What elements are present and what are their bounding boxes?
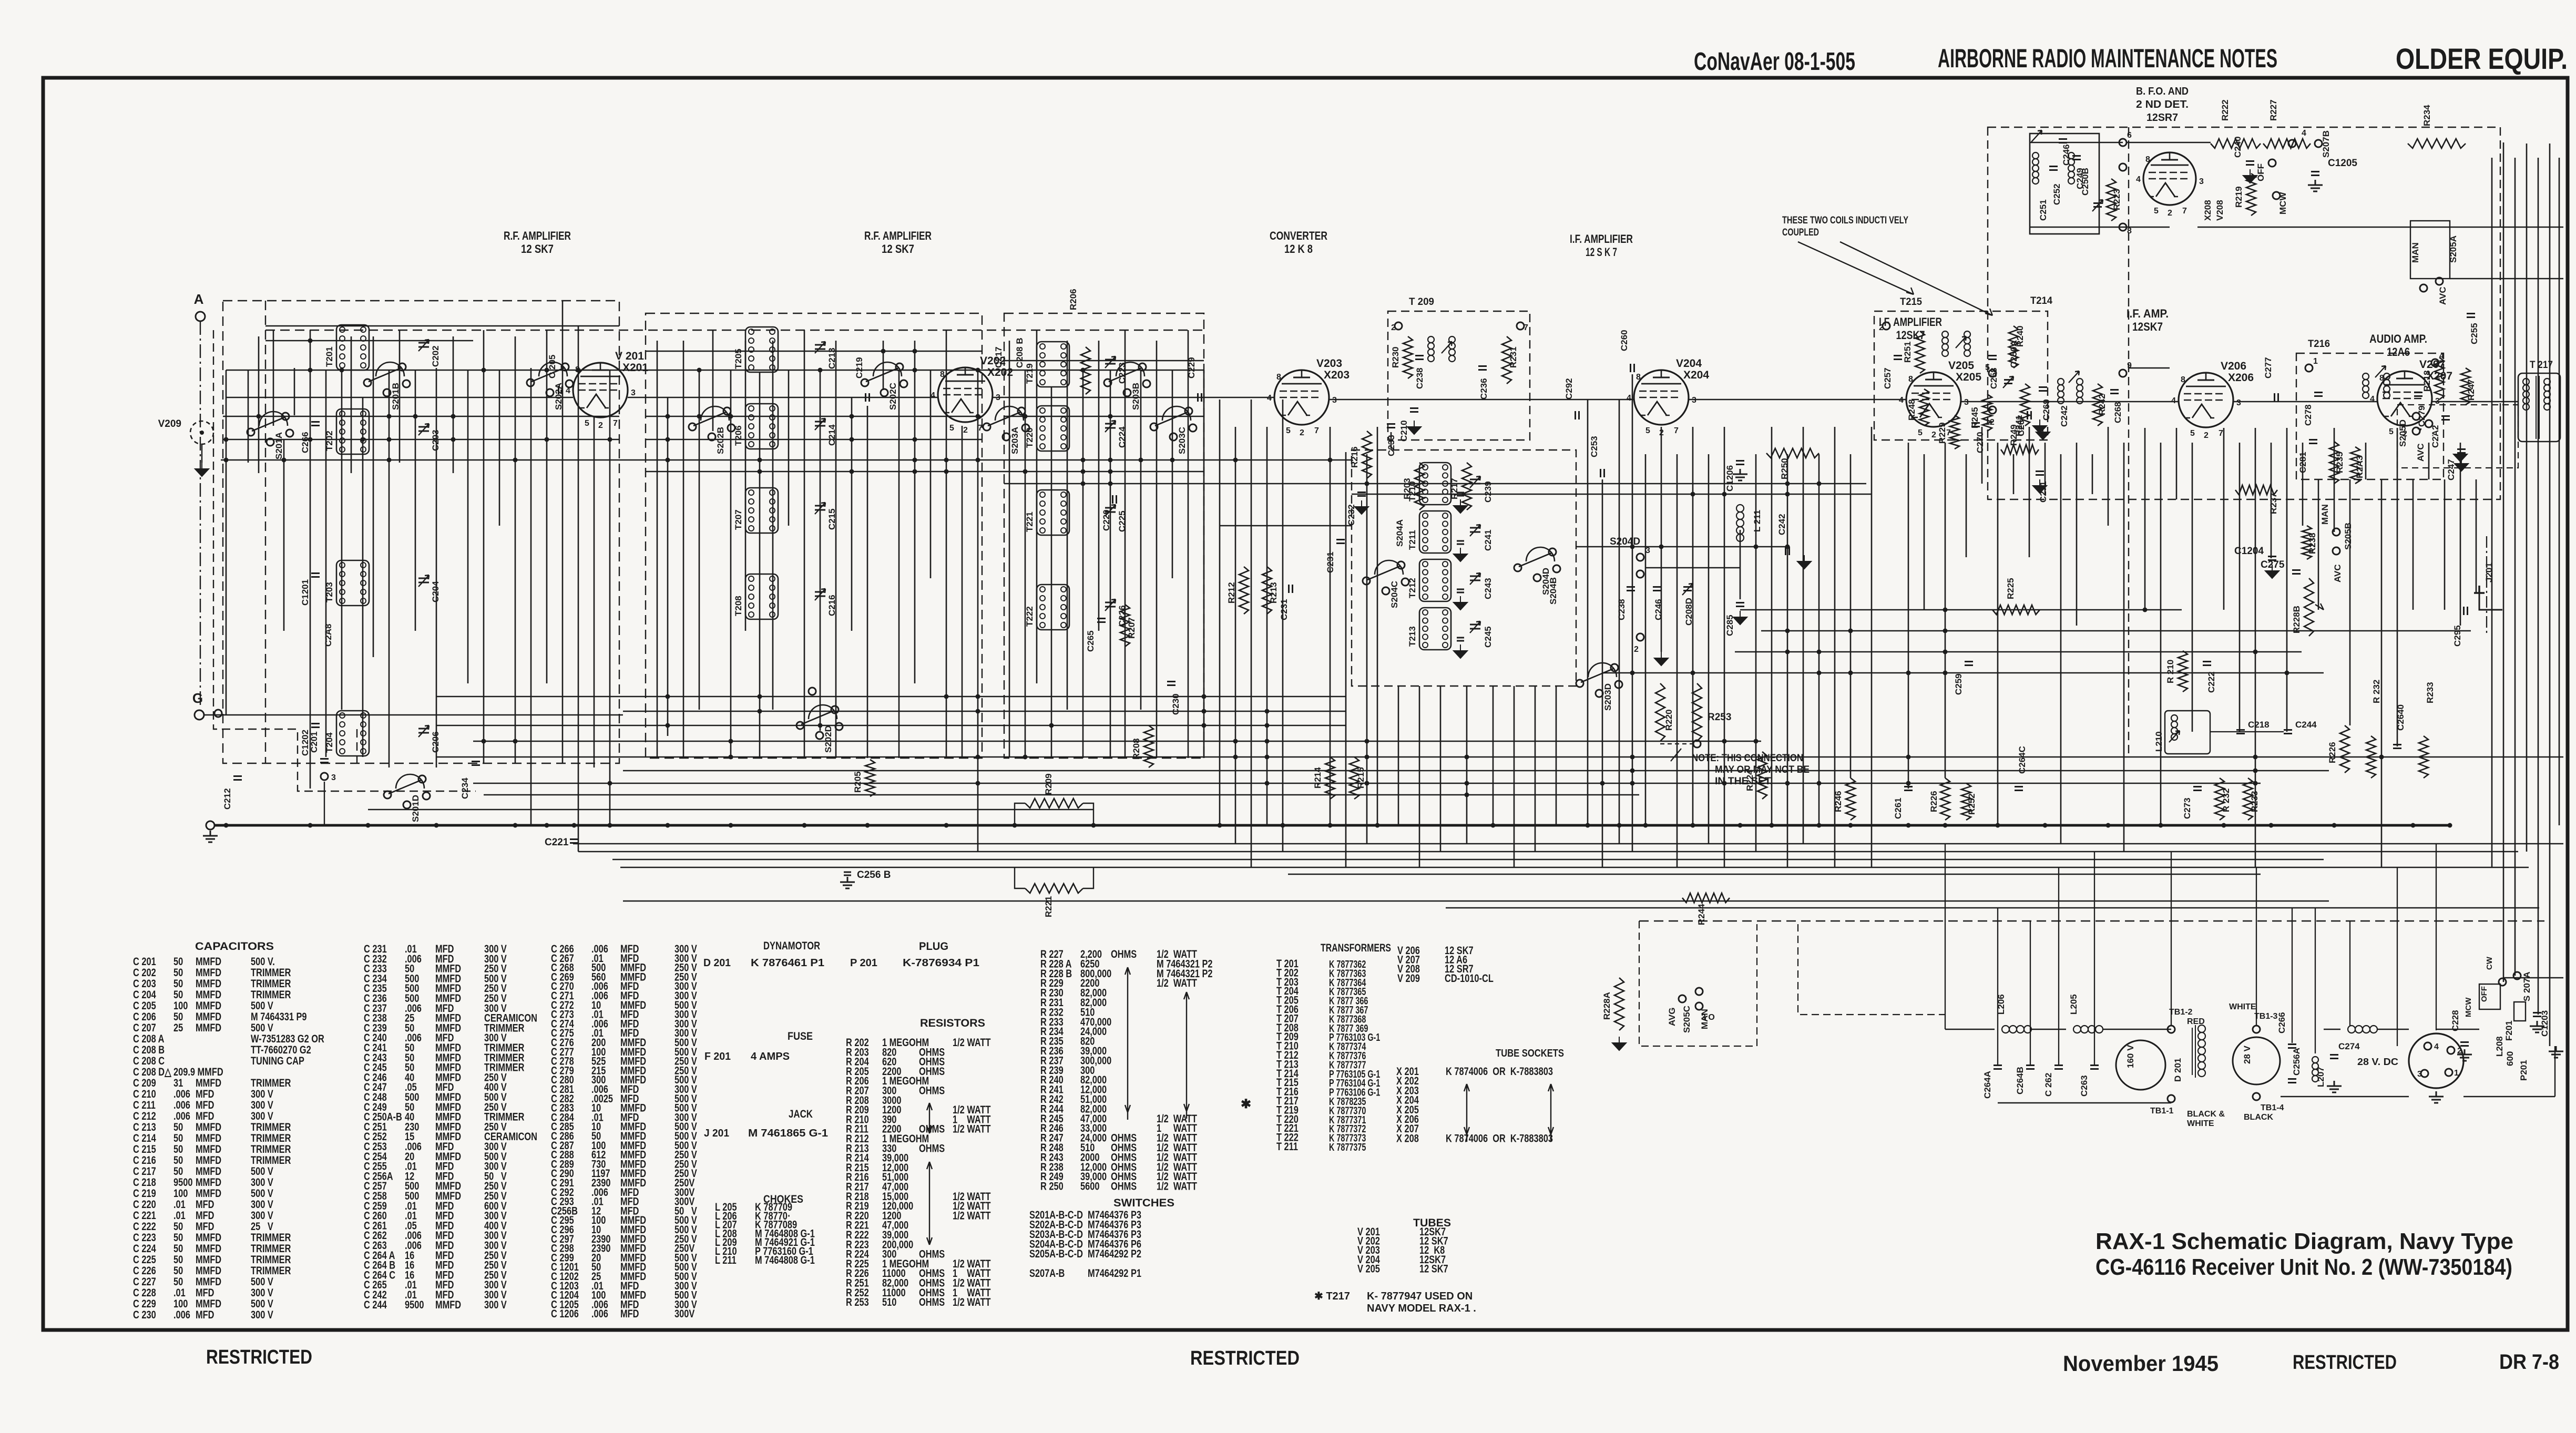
capacitor C28x T211 — [1457, 541, 1464, 544]
svg-text:C201: C201 — [309, 731, 319, 753]
svg-text:R209: R209 — [1044, 773, 1054, 795]
capacitor C250A — [2004, 380, 2012, 384]
wire vertical v8 — [341, 370, 343, 710]
wire plate to R222 — [2127, 142, 2211, 143]
capacitor C234 — [472, 762, 480, 765]
wire vertical v91 — [1740, 530, 1741, 599]
svg-text:TB1-3: TB1-3 — [2254, 1012, 2278, 1021]
svg-text:6: 6 — [2127, 131, 2132, 140]
svg-text:R247: R247 — [2466, 379, 2476, 401]
wire vertical v16 — [453, 336, 454, 473]
svg-text:T221: T221 — [1025, 511, 1035, 532]
T216 coil 2 — [2384, 373, 2390, 380]
wire vertical v115 — [2160, 443, 2162, 825]
svg-text:R226: R226 — [2327, 742, 2337, 763]
svg-text:12 SK7: 12 SK7 — [882, 242, 914, 255]
wire vertical v117 — [2192, 443, 2193, 732]
wire vertical v4 — [283, 439, 285, 631]
resistor R225 — [1992, 605, 2040, 615]
svg-text:BLACK: BLACK — [2244, 1113, 2273, 1122]
svg-text:7: 7 — [978, 424, 983, 433]
resistor R253 vertical — [1692, 683, 1702, 741]
wire vertical v39 — [835, 341, 837, 758]
wire vertical v123 — [2302, 443, 2304, 526]
svg-text:3: 3 — [1332, 396, 1337, 405]
svg-text:C242: C242 — [1777, 514, 1787, 535]
T217 secondary coil — [2544, 378, 2550, 385]
svg-text:TRANSFORMERS: TRANSFORMERS — [1321, 942, 1391, 954]
svg-text:R229: R229 — [1937, 422, 1947, 444]
wire vertical v27 — [657, 341, 658, 757]
capacitor C269 — [2039, 387, 2047, 391]
svg-text:8: 8 — [2127, 227, 2132, 236]
capacitor C1201 at T203 — [311, 574, 320, 577]
note arrow — [1671, 749, 1681, 761]
T209 primary coil — [1428, 336, 1434, 343]
svg-text:T201: T201 — [324, 346, 334, 367]
svg-text:C265: C265 — [1086, 630, 1096, 652]
coupling line stage 5 — [1689, 399, 1906, 401]
svg-text:X208: X208 — [2203, 200, 2213, 221]
capacitor C256B — [844, 872, 851, 875]
svg-text:R228B: R228B — [2292, 606, 2302, 633]
trimmer arrow BFO — [2031, 130, 2042, 142]
svg-text:S 207A: S 207A — [2522, 971, 2532, 1001]
wire vertical v14 — [415, 370, 416, 631]
svg-text:C253: C253 — [1589, 436, 1599, 457]
svg-text:R218: R218 — [2422, 370, 2432, 392]
svg-text:OLDER EQUIP.: OLDER EQUIP. — [2396, 42, 2568, 75]
tube socket arrows — [1464, 1084, 1469, 1142]
OFF contact — [2268, 159, 2276, 167]
resistor R246 — [1846, 778, 1855, 820]
wire vertical v101 — [1924, 454, 1925, 610]
svg-text:5: 5 — [2190, 429, 2195, 438]
shield box converter dashed — [1004, 313, 1204, 758]
wire vertical v70 — [1366, 454, 1368, 844]
svg-text:12SK712 SK712 K812SK712 SK7: 12SK712 SK712 K812SK712 SK7 — [1419, 1225, 1448, 1275]
transformer T220 — [1037, 406, 1069, 451]
svg-text:MFDMFDMMFDMMFDMMFDMMFDMFDMMFDM: MFDMFDMMFDMMFDMMFDMMFDMFDMMFDMMFDMFDMMFD… — [435, 943, 461, 1311]
svg-text:300 V300 V250 V500 V250 V250 V: 300 V300 V250 V500 V250 V250 V300 VCERAM… — [484, 943, 537, 1311]
wire horizontal h22 — [623, 711, 1346, 712]
dashed AVC box — [2397, 405, 2518, 468]
svg-text:C292: C292 — [1564, 378, 1574, 400]
svg-text:8: 8 — [1636, 373, 1641, 382]
pin 2 mixer — [1637, 633, 1644, 641]
svg-text:1: 1 — [2454, 1069, 2459, 1078]
jack J201 — [2479, 593, 2502, 610]
T214 pin 9 — [2119, 370, 2127, 377]
wire vertical v22 — [546, 330, 548, 683]
svg-text:C 262: C 262 — [2043, 1073, 2053, 1097]
svg-text:C244: C244 — [2295, 720, 2317, 730]
wire horizontal h29 — [368, 809, 1093, 811]
terminal TB1-3 — [2253, 1026, 2260, 1033]
svg-text:4: 4 — [2370, 395, 2375, 404]
svg-text:R245: R245 — [1970, 407, 1980, 428]
svg-text:T211: T211 — [1407, 530, 1417, 550]
capacitor C285 — [1736, 603, 1744, 607]
wire horizontal h28 — [484, 794, 1639, 796]
svg-text:28 V. DC: 28 V. DC — [2357, 1057, 2398, 1067]
svg-text:CW: CW — [2485, 956, 2494, 970]
resistor R234 — [2408, 139, 2466, 148]
audio transformer T216 dashed box — [2296, 353, 2444, 479]
svg-text:F201: F201 — [2504, 1020, 2514, 1041]
svg-text:C206: C206 — [431, 731, 441, 753]
ground under plug P201 — [2429, 1091, 2444, 1103]
svg-text:T219: T219 — [1025, 363, 1035, 384]
capacitor C273 — [2193, 787, 2202, 791]
transformer T211 — [1419, 511, 1451, 553]
wire vertical v2 — [258, 336, 260, 473]
wire vertical v82 — [1602, 479, 1603, 867]
svg-text:X 201X 202X 203X 204X 205X 206: X 201X 202X 203X 204X 205X 206X 207X 208 — [1396, 1065, 1419, 1144]
svg-text:C234: C234 — [460, 777, 470, 799]
svg-text:12 K 8: 12 K 8 — [1284, 242, 1313, 255]
BFO coil second — [2068, 152, 2074, 159]
capacitor C28x T210 — [1457, 493, 1464, 496]
capacitor C239 — [1470, 479, 1480, 484]
wire horizontal h27 — [473, 783, 2261, 784]
transformer T205 — [745, 327, 778, 372]
svg-text:C243: C243 — [1483, 578, 1493, 599]
resistor R218 — [2435, 357, 2444, 400]
svg-text:R237: R237 — [2268, 493, 2278, 514]
capacitor C264B — [2026, 1066, 2035, 1069]
switch S204D — [1526, 547, 1555, 561]
wire vertical v105 — [1997, 443, 1999, 825]
svg-text:TUBE SOCKETS: TUBE SOCKETS — [1496, 1048, 1564, 1059]
switch S202D — [809, 705, 837, 719]
svg-text:C246: C246 — [2061, 144, 2071, 166]
svg-text:R225: R225 — [2006, 578, 2016, 599]
wire vertical v102 — [1945, 443, 1946, 778]
resistor R224 — [1757, 752, 1767, 799]
capacitor C259 — [1965, 662, 1973, 666]
capacitor C262 — [2054, 1066, 2063, 1069]
svg-text:T 209: T 209 — [1409, 296, 1434, 308]
svg-text:1: 1 — [2313, 357, 2318, 366]
svg-text:.006.01500560.006.00610.01.006: .006.01500560.006.00610.01.006.012001005… — [591, 943, 613, 1320]
switch S201D — [396, 774, 424, 789]
capacitor C257 — [1894, 356, 1902, 360]
wire horizontal h30 — [2197, 227, 2563, 228]
choke L208 coil — [2348, 1026, 2355, 1033]
svg-text:AVC: AVC — [2438, 286, 2448, 305]
coupling line stage 6 — [1961, 401, 2179, 403]
capacitor C240 — [2246, 161, 2254, 165]
capacitor C201 — [320, 759, 329, 763]
svg-text:S205C: S205C — [1682, 1006, 1692, 1033]
capacitor C1206 — [1736, 461, 1744, 465]
svg-text:G: G — [192, 690, 203, 706]
svg-text:5: 5 — [1918, 428, 1923, 437]
svg-text:R208: R208 — [1131, 738, 1141, 760]
svg-text:C260: C260 — [1619, 330, 1629, 351]
wire horizontal h0 — [265, 325, 619, 327]
capacitor C295 — [2464, 607, 2468, 615]
wire vertical v69 — [1345, 452, 1347, 867]
svg-text:B. F.O. AND: B. F.O. AND — [2136, 86, 2189, 97]
wire horizontal h15 — [1576, 546, 1787, 548]
switch S205A box — [2410, 221, 2450, 279]
wire power top — [1945, 1029, 1995, 1030]
resistor R237 — [2235, 485, 2277, 495]
svg-text:8: 8 — [2181, 375, 2185, 384]
svg-text:SWITCHES: SWITCHES — [1113, 1197, 1174, 1209]
wire vertical v53 — [1067, 341, 1068, 710]
wire vertical v62 — [1203, 370, 1205, 758]
svg-text:M7464376 P3M7464376 P3M7464376: M7464376 P3M7464376 P3M7464376 P3M746437… — [1088, 1209, 1141, 1279]
svg-text:28 V: 28 V — [2242, 1045, 2252, 1064]
wire vertical v24 — [578, 326, 579, 852]
svg-text:C256 B: C256 B — [857, 869, 891, 881]
T216 pin 1 — [2305, 364, 2313, 372]
svg-text:3: 3 — [631, 388, 636, 397]
transformer T202 — [336, 409, 369, 454]
trimmer capacitor C216 — [815, 592, 825, 596]
capacitor C260 — [1631, 364, 1634, 372]
svg-text:R228A: R228A — [1602, 992, 1612, 1020]
transformer T221 — [1037, 490, 1069, 535]
resistor R214 — [1325, 757, 1335, 799]
transformer T212 — [1419, 559, 1451, 601]
wire vertical v126 — [2349, 479, 2351, 725]
svg-text:C266: C266 — [2277, 1012, 2287, 1033]
wire horizontal h17 — [1740, 609, 2182, 611]
svg-text:500 V.TRIMMERTRIMMERTRIMMER500: 500 V.TRIMMERTRIMMERTRIMMER500 VM 746433… — [251, 955, 324, 1321]
svg-text:COUPLED: COUPLED — [1782, 227, 1819, 238]
wire vertical v80 — [1556, 686, 1557, 825]
wire vertical v29 — [683, 341, 684, 757]
capacitor C238 — [1415, 356, 1424, 360]
svg-text:4 AMPS: 4 AMPS — [751, 1051, 790, 1062]
svg-text:C 266C 267C 268C 269C 270C 271: C 266C 267C 268C 269C 270C 271C 272C 273… — [551, 943, 579, 1320]
wire vertical v43 — [898, 370, 900, 758]
svg-text:P201: P201 — [2519, 1060, 2529, 1081]
svg-text:R230: R230 — [1391, 346, 1401, 368]
wire vertical v0 — [226, 370, 227, 715]
wire vertical v138 — [2526, 144, 2528, 852]
wire vertical v41 — [867, 406, 868, 758]
svg-text:T216: T216 — [2308, 339, 2330, 350]
wire vertical v90 — [1724, 427, 1725, 867]
BFO pin 6 — [2119, 139, 2127, 146]
svg-text:S202C: S202C — [888, 383, 898, 410]
resistor R251 — [1915, 331, 1925, 373]
capacitor C244b — [2284, 730, 2292, 734]
transformer T207 — [745, 488, 778, 533]
wire vertical v6 — [310, 330, 311, 789]
svg-text:C218: C218 — [2248, 720, 2270, 730]
svg-text:5: 5 — [1985, 363, 1990, 372]
svg-text:RAX-1 Schematic Diagram, Na: RAX-1 Schematic Diagram, Navy Type — [2095, 1229, 2513, 1254]
resistor R226 lower — [2340, 725, 2349, 773]
svg-text:R241: R241 — [2014, 415, 2024, 436]
resistor R206 — [1081, 347, 1090, 394]
svg-text:C256A: C256A — [2292, 1048, 2302, 1076]
svg-text:T 201T 202T 203T 204T 205T 206: T 201T 202T 203T 204T 205T 206T 207T 208… — [1276, 957, 1299, 1152]
svg-text:5: 5 — [2154, 207, 2159, 216]
svg-text:2: 2 — [1391, 323, 1396, 332]
wire right — [2210, 731, 2284, 732]
wire vertical v139 — [2538, 158, 2539, 1015]
svg-text:L205: L205 — [2069, 994, 2079, 1015]
capacitor C249 — [2072, 156, 2081, 160]
fuse F201 — [2514, 1002, 2526, 1021]
svg-text:2: 2 — [1931, 431, 1936, 439]
T214 pin 12 — [1989, 406, 1996, 414]
svg-text:L208: L208 — [2495, 1036, 2505, 1057]
resistor R209 horizontal — [1025, 799, 1083, 808]
capacitor C275 — [2292, 570, 2301, 574]
wire vertical v71 — [1377, 427, 1378, 825]
wire horizontal h14 — [1220, 525, 1352, 527]
wire power bottom — [1998, 1102, 2171, 1104]
wire antenna dash-dot lead — [200, 321, 201, 707]
switch S207A — [2499, 978, 2506, 986]
capacitor C231b — [1289, 585, 1293, 593]
capacitor C266 at T202 — [311, 422, 320, 426]
resistor R215 — [1350, 757, 1359, 799]
svg-text:2: 2 — [2168, 209, 2172, 218]
svg-text:I.F. AMP.: I.F. AMP. — [2127, 307, 2169, 320]
label C265 R207 — [1097, 619, 1106, 622]
shield box RF amplifier 1 dashed — [223, 301, 619, 763]
capacitor C255 — [2467, 314, 2475, 318]
label C220 — [1113, 495, 1117, 504]
capacitor C274 — [2330, 1055, 2338, 1059]
capacitor C222 — [2203, 662, 2211, 666]
wire vertical v13 — [399, 330, 401, 463]
resistor R230 — [1403, 336, 1413, 378]
svg-text:R 210: R 210 — [2165, 660, 2175, 683]
svg-text:C277: C277 — [2263, 357, 2273, 378]
svg-text:3: 3 — [2417, 1070, 2422, 1079]
MCW contact — [2273, 192, 2280, 199]
svg-text:4: 4 — [1267, 394, 1272, 403]
svg-text:MCW: MCW — [2278, 192, 2288, 214]
wire vertical v12 — [389, 370, 390, 767]
wire vertical v3 — [273, 330, 274, 426]
svg-text:C245: C245 — [1483, 626, 1493, 648]
wire vertical v81 — [1587, 400, 1589, 825]
svg-text:M 7461865 G-1: M 7461865 G-1 — [748, 1128, 828, 1139]
svg-text:R221: R221 — [1044, 896, 1054, 917]
capacitor C243 — [1470, 576, 1480, 580]
wire vertical v85 — [1645, 454, 1647, 825]
svg-text:MCW: MCW — [2464, 997, 2473, 1017]
svg-text:R2Ά3: R2Ά3 — [2355, 456, 2365, 478]
wire vertical v140 — [2549, 144, 2551, 1046]
svg-text:A: A — [194, 291, 204, 307]
svg-text:12A6: 12A6 — [2387, 345, 2410, 359]
svg-text:C257: C257 — [1883, 367, 1893, 389]
wire vertical v63 — [1219, 400, 1221, 825]
wire vertical v87 — [1677, 454, 1678, 867]
wire vertical v130 — [2413, 479, 2414, 610]
wire horizontal h26 — [623, 770, 2329, 772]
svg-text:R 232: R 232 — [2221, 789, 2231, 812]
resistor R222 — [2211, 139, 2261, 148]
svg-text:V204: V204 — [1676, 357, 1702, 370]
power section vertical feeds — [1945, 844, 1946, 1029]
svg-text:I.F. AMPLIFIER: I.F. AMPLIFIER — [1570, 232, 1633, 245]
svg-text:K 7874006 OR K-7883803: K 7874006 OR K-7883803 K 7874006 OR K-78… — [1446, 1065, 1553, 1144]
wire vertical v128 — [2381, 479, 2383, 867]
svg-text:C221: C221 — [545, 837, 569, 848]
switch S205B — [2333, 528, 2340, 536]
trimmer capacitor C225 — [1105, 508, 1116, 512]
wire vertical v135 — [2491, 158, 2493, 867]
plug P201 circle — [2409, 1033, 2463, 1088]
svg-text:P 201: P 201 — [850, 957, 877, 969]
trimmer capacitor C215 — [815, 506, 825, 510]
switch S201B — [376, 362, 404, 376]
wire vertical v60 — [1172, 370, 1173, 578]
svg-text:R220: R220 — [1664, 709, 1674, 731]
wire horizontal h3 — [1004, 360, 1204, 362]
wire vertical v75 — [1440, 686, 1442, 852]
svg-text:CAPACITORS: CAPACITORS — [195, 940, 274, 953]
wire horizontal h32 — [2129, 367, 2170, 369]
capacitor C282 — [2441, 416, 2450, 420]
wire vertical v59 — [1156, 341, 1158, 758]
T216 coil — [2363, 373, 2369, 380]
svg-text:3 O: 3 O — [1701, 1013, 1715, 1022]
svg-text:7: 7 — [2219, 429, 2223, 438]
wire vertical v114 — [2144, 428, 2146, 610]
capacitor C228 — [2460, 1042, 2469, 1046]
wire vertical v56 — [1110, 370, 1111, 758]
svg-text:S202B: S202B — [715, 427, 725, 454]
svg-text:OHMS OHMSOHMS: OHMS OHMSOHMSOHMSOHMSOHMSOHMS — [1111, 948, 1137, 1192]
OFF box — [2479, 984, 2500, 1009]
svg-text:C208 B: C208 B — [1015, 337, 1025, 368]
resistor R229 and capacitor C270 — [1950, 415, 1959, 449]
svg-text:C 231C 232C 233C 234C 235C 236: C 231C 232C 233C 234C 235C 236C 237C 238… — [364, 943, 402, 1311]
wire vertical v67 — [1282, 400, 1284, 852]
bus line B+ 1 — [573, 843, 2563, 844]
wire horizontal h18 — [1761, 630, 2471, 632]
svg-text:MFDMFDMMFDMMFDMFDMFDMMFDMFDMFD: MFDMFDMMFDMMFDMFDMFDMMFDMFDMFDMFDMMFDMMF… — [620, 943, 646, 1320]
svg-text:C263: C263 — [2079, 1075, 2089, 1097]
tube V203 converter 12K8 — [1274, 370, 1329, 425]
svg-text:C212: C212 — [222, 788, 232, 810]
svg-text:S203C: S203C — [1177, 427, 1187, 454]
bus line 7 — [1446, 907, 2539, 908]
ground right edge — [2549, 1046, 2563, 1058]
svg-text:7: 7 — [2182, 207, 2187, 216]
T217 core lines — [2536, 376, 2537, 439]
svg-text:S203A: S203A — [1010, 427, 1020, 454]
wire vertical v68 — [1330, 427, 1331, 825]
svg-text:RED: RED — [2187, 1017, 2205, 1026]
resistor R250 — [1766, 448, 1819, 458]
coupling line stage 1 — [226, 397, 573, 398]
wire vertical v72 — [1391, 432, 1392, 450]
resistor R227 — [2263, 139, 2311, 148]
resistor R213 — [1262, 567, 1272, 614]
svg-text:S205A: S205A — [2448, 236, 2458, 263]
capacitor C246 — [1653, 587, 1661, 591]
capacitor C279 — [2414, 393, 2422, 396]
bus line 6 — [623, 900, 2329, 902]
svg-text:S203D: S203D — [1603, 683, 1613, 711]
svg-text:X205: X205 — [1956, 371, 1981, 383]
